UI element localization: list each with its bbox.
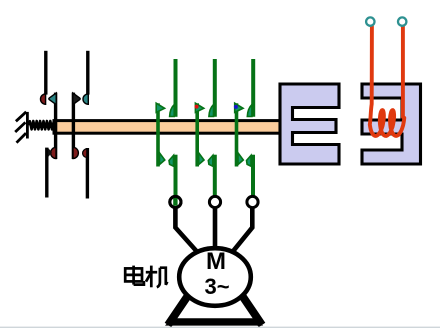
main contact channel 3: lower fixed line and sail bbox=[247, 155, 254, 196]
armature E-core (left) bbox=[280, 84, 339, 164]
svg-text:M: M bbox=[206, 248, 226, 275]
tip teal M1 top bbox=[49, 93, 56, 105]
main contact channel 2: upper fixed line bbox=[209, 59, 215, 117]
contact tip teal F2 bbox=[83, 94, 88, 104]
wall anchor bbox=[15, 112, 27, 143]
motor base bar bbox=[165, 318, 263, 325]
contact F2b lower-right fixed line bbox=[83, 148, 88, 199]
tip maroon F2b bbox=[83, 149, 87, 158]
coil terminal 1 bbox=[366, 17, 374, 25]
contact F2 upper-right fixed line bbox=[83, 51, 88, 105]
main contact channel 1: lower fixed line and sail bbox=[169, 155, 176, 207]
moving bar M1 bbox=[49, 93, 56, 159]
coil terminal 2 bbox=[398, 17, 406, 25]
spring bbox=[29, 121, 55, 129]
ch2 red dot bbox=[195, 105, 199, 109]
ch2 upper sail bbox=[209, 105, 214, 117]
contact F1b lower-left fixed line bbox=[47, 148, 52, 198]
stator E-core (right) with coil bbox=[362, 84, 421, 164]
terminal circle 3 bbox=[247, 196, 258, 207]
ch3 lower flag bbox=[238, 153, 243, 165]
ch1 upper flag bbox=[156, 103, 164, 112]
label ji (machine) bbox=[146, 266, 168, 288]
motor base legs bbox=[168, 263, 262, 325]
moving bar M2 bbox=[73, 93, 80, 159]
motor wire middle bbox=[213, 208, 218, 249]
coil winding with leads bbox=[370, 27, 405, 136]
ch2 lower flag bbox=[199, 153, 204, 165]
label dian (electric) bbox=[125, 266, 144, 285]
contact tip maroon F1 bbox=[41, 94, 46, 104]
terminal circle 2 bbox=[209, 196, 220, 207]
ch3 upper flag bbox=[235, 103, 243, 112]
main contact channel 3: moving rod bbox=[234, 103, 243, 166]
svg-text:3~: 3~ bbox=[204, 274, 229, 299]
main contact channel 2: moving rod bbox=[195, 103, 204, 166]
ch3 upper sail bbox=[247, 105, 252, 117]
motor wire right bbox=[230, 208, 252, 256]
ch3 blue dot bbox=[234, 105, 238, 109]
shaft (armature rod) bbox=[54, 121, 280, 134]
ch2 upper flag bbox=[195, 103, 203, 112]
motor body circle bbox=[179, 248, 251, 306]
tip maroon M1 bottom bbox=[51, 147, 56, 158]
main contact channel 1: moving rod bbox=[156, 103, 165, 166]
main contact channel 1: upper fixed line bbox=[170, 59, 176, 117]
main contact channel 2: lower fixed line and sail bbox=[208, 155, 215, 196]
tip black M2 top bbox=[73, 93, 80, 105]
terminal circle 1 bbox=[170, 196, 181, 207]
contact F1 upper-left fixed line bbox=[41, 51, 46, 105]
tip maroon M2 bottom bbox=[73, 147, 78, 158]
ch1 upper sail bbox=[170, 105, 175, 117]
main contact channel 3: upper fixed line bbox=[247, 59, 253, 117]
motor wire left bbox=[175, 208, 200, 256]
tip black F1b bbox=[48, 148, 52, 157]
bottom border line bbox=[0, 327, 440, 328]
ch1 lower flag bbox=[160, 153, 165, 165]
